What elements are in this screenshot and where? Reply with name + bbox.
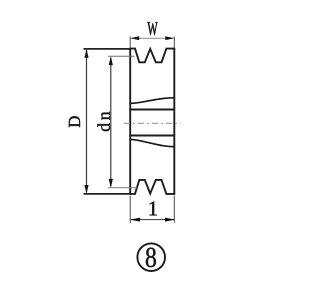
dimension D: bottom extension line	[84, 193, 131, 195]
dimension dn: top arrowhead	[109, 56, 113, 65]
label W	[147, 22, 157, 35]
dimension l: left arrowhead	[130, 218, 140, 222]
figure number circle	[137, 243, 165, 271]
bore line lower	[130, 135, 174, 137]
dimension D: dimension line	[86, 50, 88, 193]
label l	[149, 202, 156, 216]
hub taper line upper	[130, 98, 174, 104]
dimension W: extension lines	[130, 37, 174, 49]
figure number 8	[146, 248, 156, 268]
hub taper line lower	[130, 139, 174, 146]
dimension dn: bottom arrowhead	[109, 179, 113, 188]
dimension W: left arrowhead	[130, 36, 139, 40]
dimension l: right arrowhead	[165, 218, 175, 222]
dimension W: dimension line	[131, 37, 174, 39]
centerline (dashed axis)	[124, 122, 181, 124]
dimension W: right arrowhead	[165, 36, 174, 40]
dimension D: top extension line	[84, 48, 131, 50]
dimension D: top arrowhead	[84, 49, 88, 58]
pulley body outline with V-grooves	[130, 49, 174, 194]
dimension l: extension lines	[130, 196, 174, 224]
dimension l: dimension line	[131, 219, 174, 221]
label dn	[97, 123, 110, 131]
dimension dn: dimension line	[110, 58, 112, 187]
label D	[69, 116, 80, 127]
bore line upper	[130, 109, 174, 111]
dimension D: bottom arrowhead	[84, 185, 88, 194]
dimension dn: top extension line	[108, 55, 135, 57]
dimension dn: bottom extension line	[108, 187, 137, 189]
